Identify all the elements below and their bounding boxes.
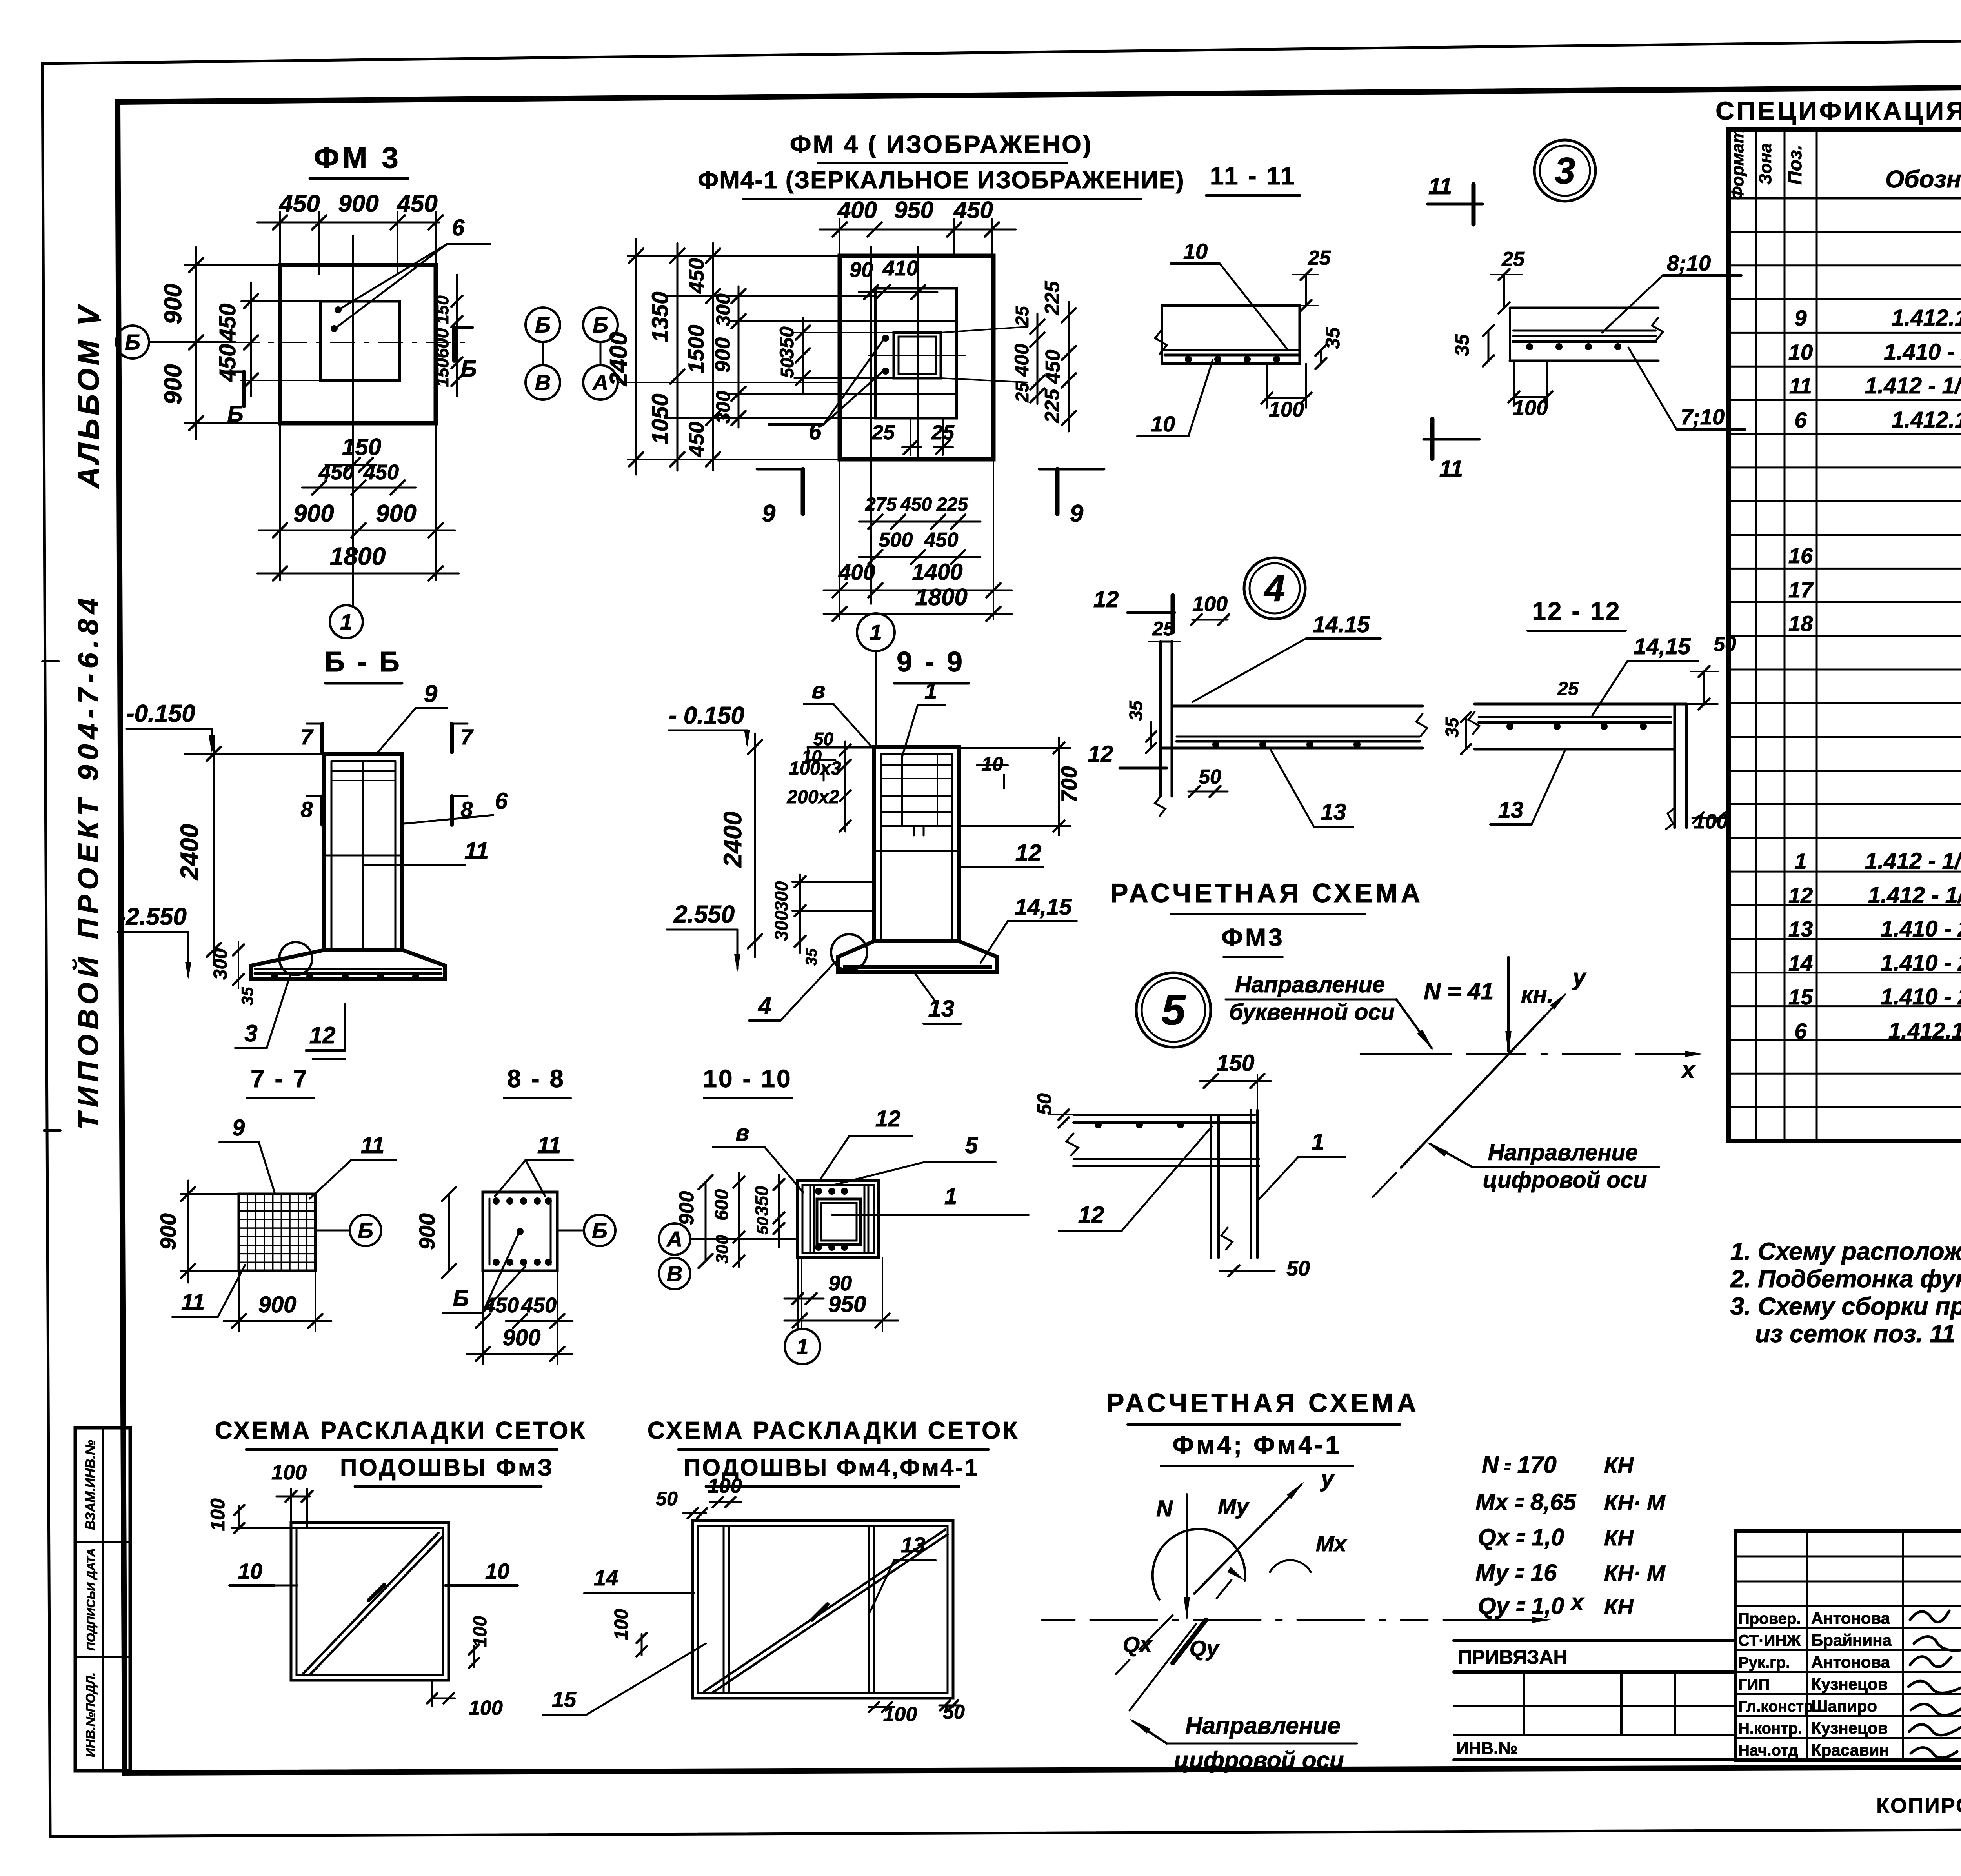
FM4 vertical grid lines through plan bbox=[871, 246, 918, 604]
FM4 schema Mx label bbox=[1270, 1531, 1348, 1572]
svg-text:Н.контр.: Н.контр. bbox=[1738, 1720, 1802, 1737]
svg-text:КН: КН bbox=[1604, 1594, 1634, 1619]
svg-text:100: 100 bbox=[1192, 592, 1228, 616]
svg-text:Обозначение: Обозначение bbox=[1885, 166, 1961, 193]
svg-text:410: 410 bbox=[882, 257, 918, 280]
section B-B title bbox=[324, 646, 402, 683]
9-9 mesh dims 50 100x3 200x2 bbox=[787, 729, 851, 832]
ref circle 3 bbox=[1534, 140, 1595, 201]
svg-text:25: 25 bbox=[1308, 247, 1331, 269]
svg-text:12: 12 bbox=[1088, 741, 1113, 767]
svg-text:Б: Б bbox=[453, 1286, 469, 1311]
svg-text:50: 50 bbox=[754, 1217, 771, 1235]
svg-text:Провер.: Провер. bbox=[1738, 1610, 1801, 1627]
title block inv no label bbox=[1456, 1739, 1517, 1758]
FM4 bottom dim chain 500,450 bbox=[859, 529, 980, 564]
raskladka FM3 square with diagonal bbox=[291, 1523, 449, 1680]
notes line 1 bbox=[1730, 1238, 1961, 1265]
svg-text:2. Подбетонка фундаментов усло: 2. Подбетонка фундаментов условно не пок… bbox=[1730, 1265, 1961, 1293]
svg-text:-2.550: -2.550 bbox=[118, 903, 187, 930]
ref circle 5 bbox=[1136, 973, 1211, 1047]
title block left extension rows bbox=[1454, 1641, 1735, 1760]
FM4 plan title line 1 bbox=[790, 130, 1093, 163]
B-B label 11 leader bbox=[365, 838, 489, 865]
FM3 schema Y diagonal axis bbox=[1373, 964, 1587, 1197]
B-B labels 3 and 12 bbox=[235, 975, 345, 1059]
9-9 stem walls bbox=[874, 747, 959, 941]
corner mesh detail (poz 1/12) bbox=[1066, 1110, 1259, 1258]
FM3 plan outer base square bbox=[280, 265, 436, 423]
10-10 axis circles A V bbox=[659, 1223, 798, 1289]
FM4 top dim chain 400,950,450 bbox=[820, 197, 1016, 256]
table row: poz 18 bbox=[1788, 611, 1961, 636]
svg-text:в: в bbox=[811, 678, 825, 703]
10-10 dim 600/300 bbox=[711, 1173, 744, 1267]
raskladka FM3 dim 100 left bbox=[207, 1498, 297, 1533]
svg-text:900: 900 bbox=[258, 1292, 297, 1317]
svg-text:х: х bbox=[1570, 1589, 1585, 1615]
9-9 right marks 10 and 700 bbox=[959, 737, 1081, 835]
raskladka FM4 dim 50 top-left bbox=[656, 1488, 707, 1518]
7-7 dim 900 left bbox=[156, 1181, 239, 1283]
svg-text:900: 900 bbox=[160, 364, 187, 404]
svg-text:7: 7 bbox=[300, 724, 314, 749]
detail 12-12 right: slab and wall corner bbox=[1468, 704, 1686, 829]
svg-text:1: 1 bbox=[924, 679, 937, 704]
raskladka FM3 dim 100 bottom bbox=[427, 1680, 503, 1720]
table row: poz 9 bbox=[1794, 305, 1961, 331]
corner detail label 1 bbox=[1258, 1129, 1345, 1200]
FM4 inner top dim 90,410 bbox=[850, 257, 937, 299]
svg-text:900: 900 bbox=[293, 500, 334, 527]
FM4 schema X axis bbox=[1042, 1589, 1585, 1623]
detail 12 left label 13 bbox=[1271, 750, 1353, 827]
svg-text:Qх ꞊ 1,0: Qх ꞊ 1,0 bbox=[1478, 1524, 1564, 1550]
svg-text:450: 450 bbox=[278, 190, 320, 217]
FM4 bottom dim 1800 bbox=[824, 584, 1012, 621]
svg-text:900: 900 bbox=[338, 190, 378, 217]
svg-text:10: 10 bbox=[238, 1559, 262, 1583]
10-10 label v bbox=[713, 1120, 803, 1192]
title block privyazan label bbox=[1458, 1646, 1568, 1668]
notes line 4 bbox=[1755, 1320, 1961, 1348]
9-9 axis circle 1 bbox=[857, 613, 895, 747]
svg-text:N: N bbox=[1156, 1496, 1173, 1521]
FM3 section mark B right bbox=[454, 328, 477, 382]
FM4 anchor dim chain 350/50 bbox=[776, 318, 894, 392]
svg-text:950: 950 bbox=[828, 1292, 866, 1317]
svg-text:1.412 - 1/77 вып. 3: 1.412 - 1/77 вып. 3 bbox=[1865, 373, 1961, 398]
left margin mini table bbox=[75, 1428, 130, 1771]
svg-text:11 - 11: 11 - 11 bbox=[1210, 162, 1296, 190]
svg-text:1: 1 bbox=[1794, 849, 1806, 873]
FM4 schema N force arrow bbox=[1156, 1494, 1190, 1620]
FM4 bottom dim chain 275,450,225 bbox=[859, 494, 980, 529]
svg-text:Антонова: Антонова bbox=[1811, 1653, 1890, 1671]
notes line 3 bbox=[1730, 1293, 1961, 1320]
svg-text:СХЕМА РАСКЛАДКИ СЕТОК: СХЕМА РАСКЛАДКИ СЕТОК bbox=[215, 1417, 587, 1444]
svg-text:300: 300 bbox=[713, 1235, 732, 1264]
B-B label 6 leader bbox=[404, 788, 508, 824]
section 8-8 title bbox=[504, 1064, 571, 1098]
svg-text:РАСЧЕТНАЯ СХЕМА: РАСЧЕТНАЯ СХЕМА bbox=[1106, 1388, 1419, 1418]
svg-text:10: 10 bbox=[981, 753, 1003, 775]
11-11 right label 7;10 bbox=[1628, 348, 1745, 429]
svg-text:50: 50 bbox=[1714, 633, 1736, 656]
9-9 labels v and 1 bbox=[804, 678, 945, 757]
10-10 column section squares bbox=[798, 1180, 879, 1258]
svg-text:13: 13 bbox=[901, 1532, 925, 1557]
FM3 axis circle B left bbox=[116, 326, 235, 358]
svg-text:350: 350 bbox=[751, 1186, 772, 1216]
svg-text:ГИП: ГИП bbox=[1738, 1676, 1770, 1693]
svg-text:ПОДОШВЫ ФмЗ: ПОДОШВЫ ФмЗ bbox=[340, 1454, 554, 1481]
8-8 dim 900 bottom bbox=[467, 1271, 573, 1364]
10-10 dim 900 left bbox=[675, 1175, 713, 1268]
svg-text:9 - 9: 9 - 9 bbox=[897, 646, 965, 678]
svg-text:100: 100 bbox=[611, 1609, 632, 1640]
FM3 schema N=41 load bbox=[1424, 957, 1554, 1054]
label napravlenie tsifrovoy osi (FM3) bbox=[1427, 1140, 1659, 1193]
FM3 bottom dim 450,450 bbox=[302, 460, 416, 495]
svg-text:2.550: 2.550 bbox=[673, 901, 735, 928]
svg-text:Б: Б bbox=[227, 401, 243, 427]
svg-text:900: 900 bbox=[503, 1325, 541, 1350]
svg-text:13: 13 bbox=[1498, 797, 1524, 823]
svg-text:12: 12 bbox=[309, 1022, 336, 1048]
svg-text:ИНВ.№ПОДЛ.: ИНВ.№ПОДЛ. bbox=[84, 1672, 98, 1757]
svg-text:N = 41: N = 41 bbox=[1424, 978, 1493, 1004]
7-7 label 11 bottom-left bbox=[173, 1265, 245, 1317]
svg-text:11: 11 bbox=[181, 1290, 205, 1315]
B-B base slab bbox=[251, 950, 445, 980]
notes line 2 bbox=[1730, 1265, 1961, 1293]
FM3 plan title bbox=[310, 141, 408, 178]
fold marks on left border bbox=[42, 661, 60, 1130]
svg-text:12: 12 bbox=[1078, 1202, 1104, 1228]
svg-text:50: 50 bbox=[1199, 766, 1221, 788]
svg-text:Б: Б bbox=[535, 313, 551, 337]
svg-text:9: 9 bbox=[424, 681, 438, 708]
svg-text:КН: КН bbox=[1604, 1453, 1634, 1478]
table row: poz 6b bbox=[1794, 1018, 1961, 1044]
svg-text:100: 100 bbox=[1269, 398, 1304, 421]
svg-text:11: 11 bbox=[361, 1133, 384, 1158]
FM3 schema X axis bbox=[1361, 1051, 1704, 1083]
raschetnaya skhema FM3 title bbox=[1110, 878, 1423, 957]
svg-text:ФМ3: ФМ3 bbox=[1221, 923, 1285, 952]
raskladka FM4 label 15 bbox=[543, 1643, 706, 1715]
svg-text:Qу: Qу bbox=[1190, 1636, 1220, 1661]
svg-text:4: 4 bbox=[1264, 568, 1285, 609]
svg-text:150: 150 bbox=[1217, 1050, 1255, 1076]
table row: poz 15 bbox=[1788, 984, 1961, 1010]
svg-text:1: 1 bbox=[1311, 1129, 1324, 1155]
10-10 axis circle 1 bbox=[785, 1258, 820, 1364]
11-11 left label 10 top bbox=[1171, 239, 1287, 349]
svg-text:1500: 1500 bbox=[684, 325, 708, 374]
corner detail dim 150 bbox=[1200, 1050, 1271, 1110]
11-11 right dim 100 bbox=[1508, 361, 1552, 420]
9-9 label 12 leader bbox=[961, 840, 1043, 867]
FM3 top dimension chain 450,900,450 bbox=[257, 190, 443, 275]
svg-text:7;10: 7;10 bbox=[1681, 404, 1725, 429]
FM4 plan outer base rect bbox=[840, 256, 993, 459]
svg-text:6: 6 bbox=[1794, 1019, 1807, 1043]
8-8 label 11 bbox=[495, 1133, 573, 1196]
title block signatures table bbox=[1735, 1531, 1961, 1760]
svg-text:1.410 - 2 вып. 1: 1.410 - 2 вып. 1 bbox=[1881, 950, 1961, 976]
svg-text:Qх: Qх bbox=[1123, 1632, 1153, 1657]
svg-text:50: 50 bbox=[1286, 1257, 1310, 1280]
raskladka FM3 dim 100 right bbox=[469, 1616, 491, 1668]
svg-text:- 0.150: - 0.150 bbox=[669, 702, 744, 729]
svg-text:1.410 - 2 вып.1: 1.410 - 2 вып.1 bbox=[1884, 339, 1961, 365]
svg-text:35: 35 bbox=[1126, 700, 1146, 721]
FM4 right dim chain 225/450/225 bbox=[1041, 281, 1076, 431]
svg-text:10: 10 bbox=[485, 1559, 509, 1583]
svg-text:450: 450 bbox=[396, 190, 437, 217]
svg-text:9: 9 bbox=[232, 1115, 245, 1141]
svg-text:900: 900 bbox=[675, 1191, 698, 1225]
svg-text:КН· М: КН· М bbox=[1604, 1490, 1666, 1515]
svg-text:ФМ 4 ( ИЗОБРАЖЕНО): ФМ 4 ( ИЗОБРАЖЕНО) bbox=[790, 130, 1093, 158]
svg-text:Б: Б bbox=[592, 1218, 608, 1243]
svg-text:СПЕЦИФИКАЦИЯ МОНОЛИТНЫХ ФУН: СПЕЦИФИКАЦИЯ МОНОЛИТНЫХ ФУНДАМЕНТОВ bbox=[1715, 96, 1961, 125]
svg-text:Кузнецов: Кузнецов bbox=[1811, 1719, 1888, 1737]
svg-text:12: 12 bbox=[1788, 883, 1813, 908]
svg-text:14: 14 bbox=[594, 1565, 618, 1590]
svg-text:12: 12 bbox=[1015, 840, 1042, 866]
svg-text:1. Схему расположения фундамен: 1. Схему расположения фундаментов см. ли… bbox=[1730, 1238, 1961, 1265]
svg-text:Б: Б bbox=[358, 1218, 373, 1243]
11-11 left dim 35 bbox=[1315, 327, 1344, 369]
7-7 mesh grid square bbox=[239, 1194, 315, 1271]
svg-text:300: 300 bbox=[712, 293, 734, 326]
detail 12 left mark 12 lower bbox=[1088, 741, 1167, 788]
detail 12-12 dim 100 bottom bbox=[1692, 810, 1728, 833]
FM4 schema Y diagonal bbox=[1116, 1465, 1335, 1674]
FM3 section mark B bottom-left bbox=[226, 372, 244, 427]
svg-text:В: В bbox=[535, 370, 551, 395]
svg-text:СТ·ИНЖ: СТ·ИНЖ bbox=[1738, 1632, 1801, 1649]
svg-text:600: 600 bbox=[711, 1189, 732, 1221]
svg-text:1.412 - 1/77 вып. 3: 1.412 - 1/77 вып. 3 bbox=[1865, 848, 1961, 874]
svg-text:450: 450 bbox=[215, 304, 240, 342]
svg-text:1.412.1- 4.050: 1.412.1- 4.050 bbox=[1892, 305, 1961, 331]
8-8 dim 900 left bbox=[415, 1187, 456, 1278]
svg-text:25: 25 bbox=[1012, 382, 1032, 403]
FM3 anchor dots and leader to label 6 bbox=[331, 215, 490, 332]
svg-text:6: 6 bbox=[495, 788, 508, 814]
svg-text:450: 450 bbox=[318, 460, 354, 484]
svg-text:16: 16 bbox=[1788, 543, 1813, 568]
svg-text:8 - 8: 8 - 8 bbox=[507, 1064, 565, 1093]
svg-text:Направление: Направление bbox=[1185, 1712, 1341, 1739]
svg-text:3: 3 bbox=[1555, 150, 1575, 191]
B-B dim 300 and 35 bbox=[210, 941, 256, 1005]
section 10-10 title bbox=[703, 1064, 792, 1098]
svg-text:450: 450 bbox=[953, 197, 993, 223]
svg-text:в: в bbox=[735, 1120, 749, 1146]
FM3 inner dimension chain 450/450 bbox=[215, 282, 320, 396]
FM4 schema Qx Qy labels bbox=[1123, 1632, 1220, 1661]
svg-text:Поз.: Поз. bbox=[1785, 145, 1806, 185]
svg-text:Зона: Зона bbox=[1756, 143, 1775, 185]
svg-text:буквенной оси: буквенной оси bbox=[1229, 999, 1395, 1025]
11-11 left slab detail bbox=[1155, 306, 1300, 364]
detail 12 left dim 50 bbox=[1188, 766, 1228, 797]
svg-text:25: 25 bbox=[871, 421, 895, 444]
svg-text:100х3: 100х3 bbox=[789, 758, 842, 779]
svg-text:1400: 1400 bbox=[912, 559, 962, 585]
svg-text:900: 900 bbox=[156, 1213, 180, 1250]
svg-text:Фм4; Фм4-1: Фм4; Фм4-1 bbox=[1172, 1431, 1341, 1459]
detail 12 left dims 100 25 bbox=[1149, 592, 1229, 642]
svg-text:900: 900 bbox=[160, 284, 187, 324]
svg-text:ИНВ.№: ИНВ.№ bbox=[1456, 1739, 1517, 1758]
svg-text:50: 50 bbox=[777, 358, 797, 378]
raskladka FM4 dim 100 left bbox=[611, 1609, 647, 1656]
svg-text:50: 50 bbox=[1033, 1093, 1055, 1115]
svg-text:300: 300 bbox=[771, 881, 791, 911]
B-B dim 2400 bbox=[175, 737, 221, 965]
svg-text:450: 450 bbox=[521, 1294, 557, 1317]
detail 12-12 label 13 bbox=[1490, 751, 1565, 824]
raskladka FM4 rect with diagonal bbox=[693, 1521, 953, 1698]
FM3 left dimension chain 900/900 bbox=[160, 247, 280, 439]
svg-text:В: В bbox=[667, 1261, 682, 1286]
svg-text:1.412.1 - 4.060: 1.412.1 - 4.060 bbox=[1888, 1018, 1961, 1044]
svg-text:1.410 - 2 вып. 1: 1.410 - 2 вып. 1 bbox=[1881, 984, 1961, 1010]
footer kopiroval bbox=[1876, 1794, 1961, 1818]
svg-text:50: 50 bbox=[656, 1488, 678, 1510]
table row: poz 11 bbox=[1789, 373, 1961, 398]
svg-text:225: 225 bbox=[936, 494, 968, 515]
FM4 plan pedestal rect bbox=[875, 288, 957, 418]
spec table headers bbox=[1728, 128, 1961, 200]
svg-text:5: 5 bbox=[1161, 986, 1186, 1034]
FM4 schema My arc bbox=[1153, 1494, 1250, 1599]
svg-text:11: 11 bbox=[464, 838, 489, 864]
svg-text:100: 100 bbox=[708, 1475, 742, 1498]
svg-text:Направление: Направление bbox=[1488, 1140, 1638, 1165]
svg-text:8;10: 8;10 bbox=[1667, 251, 1711, 275]
svg-text:КН: КН bbox=[1604, 1525, 1634, 1550]
svg-text:Б: Б bbox=[125, 330, 140, 355]
svg-text:5: 5 bbox=[965, 1133, 978, 1158]
svg-text:90: 90 bbox=[850, 258, 873, 282]
11-11 right dim 35 bbox=[1451, 325, 1494, 366]
FM4 anchor plate double square bbox=[868, 333, 965, 378]
svg-text:КН· М: КН· М bbox=[1604, 1561, 1666, 1585]
svg-text:ФМ 3: ФМ 3 bbox=[314, 141, 402, 175]
9-9 floor slab stub left bbox=[808, 747, 874, 760]
svg-text:Мх: Мх bbox=[1316, 1531, 1348, 1556]
10-10 label 12 bbox=[819, 1106, 912, 1181]
svg-text:Шапиро: Шапиро bbox=[1811, 1697, 1877, 1715]
svg-text:Рук.гр.: Рук.гр. bbox=[1738, 1654, 1790, 1671]
svg-text:-0.150: -0.150 bbox=[126, 700, 195, 727]
svg-text:кн.: кн. bbox=[1521, 981, 1554, 1008]
svg-text:1: 1 bbox=[340, 610, 352, 634]
section 9-9 title bbox=[894, 646, 969, 683]
svg-text:300: 300 bbox=[210, 948, 231, 980]
9-9 level mark 2.550 bbox=[667, 901, 740, 972]
svg-text:1: 1 bbox=[944, 1184, 957, 1209]
svg-text:Qу ꞊ 1,0: Qу ꞊ 1,0 bbox=[1478, 1593, 1564, 1619]
9-9 label 13 leader bbox=[914, 972, 961, 1024]
B-B level mark -2.550 bbox=[118, 903, 191, 979]
svg-text:1.410 - 2 вып. 1: 1.410 - 2 вып. 1 bbox=[1881, 916, 1961, 942]
svg-text:Гл.констр: Гл.констр bbox=[1738, 1698, 1814, 1715]
section mark 12 upper-left bbox=[1093, 587, 1175, 632]
10-10 dim 950 bbox=[784, 1258, 898, 1332]
table row: poz 12 bbox=[1788, 883, 1961, 908]
table row: poz 1 bbox=[1794, 848, 1961, 874]
table row: poz 17 bbox=[1788, 577, 1961, 602]
svg-text:100: 100 bbox=[470, 1616, 491, 1647]
svg-text:14: 14 bbox=[1788, 951, 1813, 975]
svg-text:10: 10 bbox=[1151, 411, 1175, 436]
table row: poz 14 bbox=[1788, 950, 1961, 976]
svg-text:225: 225 bbox=[1041, 281, 1064, 316]
svg-text:ТИПОВОЙ ПРОЕКТ 904-7-6.84: ТИПОВОЙ ПРОЕКТ 904-7-6.84 bbox=[72, 593, 104, 1130]
FM3 bottom dim 150 bbox=[326, 434, 381, 472]
FM4 right dim chain 25/400/25 bbox=[941, 306, 1044, 404]
svg-text:у: у bbox=[1320, 1465, 1335, 1492]
svg-text:Мх ꞊ 8,65: Мх ꞊ 8,65 bbox=[1475, 1489, 1577, 1515]
svg-text:15: 15 bbox=[1788, 984, 1813, 1009]
9-9 top mesh lines bbox=[881, 754, 952, 835]
8-8 dims 450 450 bottom bbox=[476, 1294, 573, 1328]
detail 12 left dim 35 bbox=[1126, 700, 1156, 753]
svg-text:х: х bbox=[1681, 1057, 1696, 1083]
11-11 right label 8;10 bbox=[1602, 251, 1741, 333]
9-9 dim 2400 bbox=[719, 733, 762, 957]
svg-text:Красавин: Красавин bbox=[1811, 1741, 1889, 1759]
FM3 plan center axis lines bbox=[235, 235, 467, 606]
svg-text:ПРИВЯЗАН: ПРИВЯЗАН bbox=[1458, 1646, 1568, 1668]
svg-text:9: 9 bbox=[762, 500, 776, 527]
detail 12 left: wall and slab corner bbox=[1155, 642, 1427, 816]
svg-text:4: 4 bbox=[758, 993, 771, 1019]
section mark 11 lower bbox=[1424, 419, 1479, 482]
FM4 schema digital axis diagonal bbox=[1130, 1580, 1232, 1710]
svg-text:900: 900 bbox=[711, 337, 735, 373]
svg-text:2400: 2400 bbox=[719, 812, 747, 868]
svg-text:10 - 10: 10 - 10 bbox=[703, 1064, 792, 1093]
svg-text:Б: Б bbox=[460, 356, 477, 382]
svg-text:400: 400 bbox=[838, 560, 875, 584]
B-B detail circle node 3 bbox=[279, 942, 312, 975]
svg-text:900: 900 bbox=[415, 1213, 439, 1250]
corner detail label 12 bbox=[1059, 1126, 1212, 1231]
svg-text:1.412 - 1/77 вып.3: 1.412 - 1/77 вып.3 bbox=[1868, 883, 1961, 908]
detail 12-12 label 14,15 bbox=[1592, 634, 1698, 715]
svg-text:3: 3 bbox=[244, 1020, 257, 1046]
label napravlenie tsifrovoy osi (FM4) bbox=[1130, 1712, 1357, 1773]
9-9 level mark -0.150 bbox=[669, 702, 750, 747]
svg-text:450: 450 bbox=[685, 258, 708, 294]
svg-text:700: 700 bbox=[1057, 766, 1081, 802]
svg-text:РАСЧЕТНАЯ СХЕМА: РАСЧЕТНАЯ СХЕМА bbox=[1110, 878, 1423, 908]
svg-text:300: 300 bbox=[771, 910, 791, 941]
detail 12 left label 14.15 bbox=[1192, 612, 1381, 702]
raschetnaya skhema FM4 title bbox=[1106, 1388, 1419, 1466]
svg-text:150: 150 bbox=[433, 295, 452, 324]
svg-text:Направление: Направление bbox=[1235, 972, 1385, 997]
